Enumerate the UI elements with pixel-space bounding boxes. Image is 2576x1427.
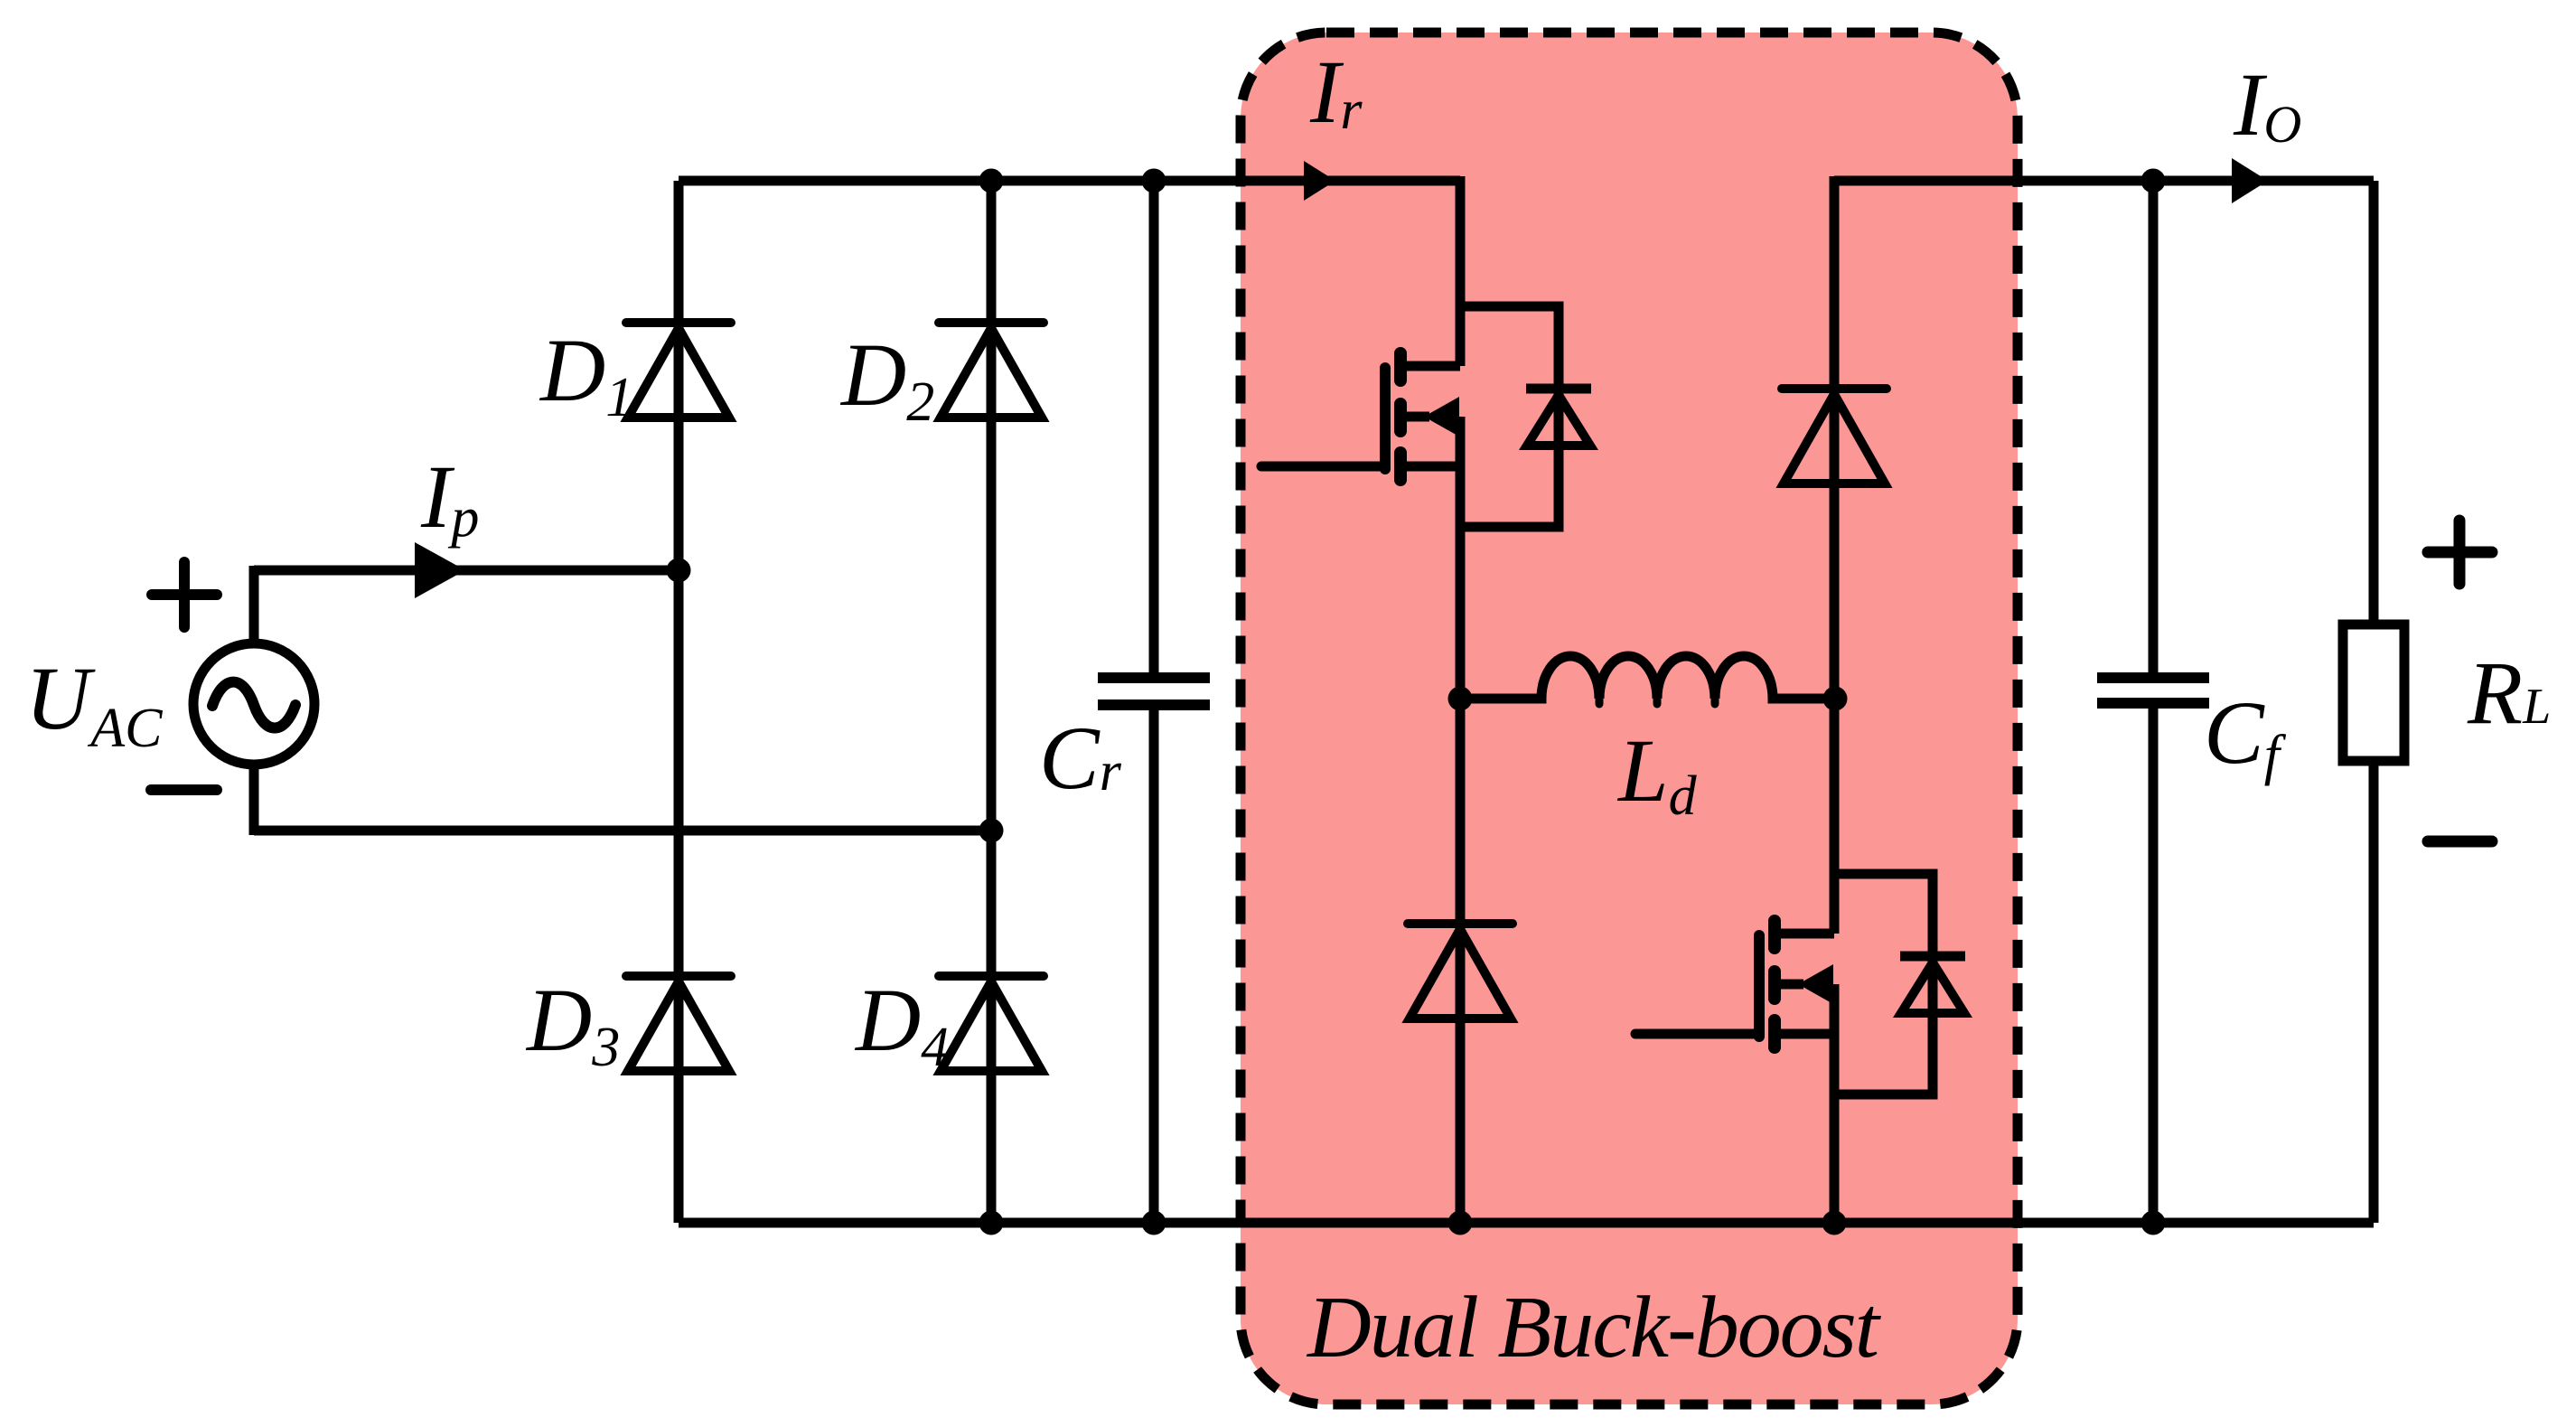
body diode Q2 (1900, 956, 1965, 1013)
body diode loop Q2 (1834, 874, 1933, 1094)
node top D2 (979, 169, 1004, 193)
body diode loop Q1 (1460, 306, 1559, 527)
wire Cr column lower (1149, 705, 1159, 1223)
diode D5 (1408, 924, 1513, 1019)
diode D3 (626, 976, 731, 1071)
body diode Q1 (1526, 389, 1591, 446)
diode D4 (939, 976, 1044, 1071)
wire Q1 source down to mid node and D5 (1456, 417, 1466, 1223)
wire output top rail (1834, 176, 2374, 186)
plus sign output (2428, 521, 2492, 584)
wire Q2 source to bottom bus (1830, 984, 1840, 1223)
node output Cf top (2141, 169, 2166, 193)
node top Cr (1142, 169, 1166, 193)
Dual Buck-boost highlighted region (1241, 33, 2018, 1404)
sine wave (212, 682, 295, 728)
diode D6 (1782, 389, 1887, 483)
node bottom Cr (1142, 1211, 1166, 1235)
wire right column D6 and Q2 drain (1830, 176, 1840, 934)
node Ip junction (667, 559, 691, 583)
node bottom D4 (979, 1211, 1004, 1235)
plus sign input (152, 562, 217, 627)
arrow Io (2232, 158, 2268, 203)
wire Cf column lower (2149, 703, 2159, 1223)
wire left bridge column D1 D3 (674, 181, 684, 1223)
node AC return junction (979, 819, 1004, 843)
svg-text:Dual Buck-boost: Dual Buck-boost (1306, 1279, 1882, 1376)
diode D2 (939, 323, 1044, 418)
arrow Ir (1304, 161, 1335, 201)
resistor RL (2343, 624, 2404, 761)
wire right bridge column D2 D4 (987, 181, 997, 1223)
wire AC source bottom stub (249, 763, 259, 835)
capacitor Cf plates (2097, 678, 2209, 703)
wire RL branch upper (2369, 181, 2379, 624)
inductor Ld (1460, 656, 1835, 699)
wire AC return (254, 826, 991, 836)
node bottom Q2 (1822, 1211, 1847, 1235)
transistor Q1 drain wire (1456, 176, 1466, 366)
node bottom D5 (1448, 1211, 1473, 1235)
wire AC source top stub (249, 566, 259, 645)
arrow Ip (415, 542, 465, 598)
node mid right (1823, 687, 1848, 711)
wire Ip horizontal (254, 566, 679, 576)
wire Cf column upper (2149, 181, 2159, 678)
source UAC circle (193, 643, 314, 765)
diode D1 (626, 323, 731, 418)
wire top bus (679, 176, 1460, 186)
node bottom Cf (2141, 1211, 2166, 1235)
wire Cr column upper (1149, 181, 1159, 678)
transistor Q1 (1261, 353, 1460, 480)
node mid left (1448, 687, 1473, 711)
minus sign output (2428, 836, 2492, 848)
transistor Q2 (1635, 921, 1834, 1047)
minus sign input (151, 784, 217, 795)
wire RL branch lower (2369, 761, 2379, 1223)
capacitor Cr plates (1098, 678, 1210, 705)
wire bottom bus (679, 1218, 2374, 1228)
